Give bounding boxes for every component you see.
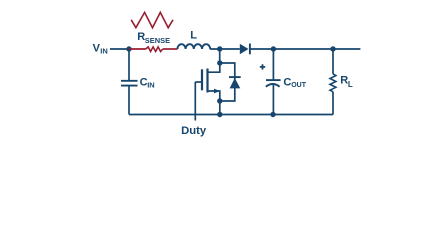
capacitor COUT top plate [266,79,281,81]
wire diode to output rail end [250,48,361,50]
svg-text:IN: IN [100,46,108,55]
resistor RSENSE big zigzag symbol above label [131,12,173,27]
svg-text:SENSE: SENSE [145,36,170,45]
transistor Q1 source arrowhead [214,89,220,94]
node C junction dot (COUT tap top) [271,46,276,51]
capacitor CIN top lead [128,49,130,81]
svg-text:L: L [348,80,353,89]
label CIN [140,76,155,89]
transistor Q1 channel bar [206,69,208,93]
wire switch node down to drain node [219,49,221,63]
node E junction dot (source branch on bottom rail) [217,112,222,117]
svg-text:C: C [283,76,291,88]
wire red lead into RSENSE [129,48,146,50]
diode D1 cathode bar [249,44,251,55]
resistor RL zigzag [330,74,336,92]
transistor Q1 source node dot [217,98,222,103]
label RL [340,74,353,89]
node A junction dot (VIN / CIN tap) [126,46,131,51]
wire source node to bottom rail [219,101,221,115]
body diode triangle [230,78,241,88]
body diode branch wire [220,63,235,101]
wire red lead out of RSENSE [163,48,178,50]
capacitor COUT plus sign [260,64,265,69]
transistor Q1 source wire [208,91,220,101]
transistor Q1 gate bar [201,69,203,90]
capacitor CIN bottom plate [121,85,138,87]
transistor Q1 drain node dot [217,60,222,65]
label L [190,30,197,42]
svg-text:IN: IN [147,80,155,89]
capacitor COUT bottom lead [272,84,274,114]
label COUT [283,76,306,89]
svg-text:OUT: OUT [291,82,307,89]
capacitor CIN top plate [121,80,138,82]
body diode cathode bar [229,76,241,78]
diode D1 triangle [240,44,249,54]
resistor RL top lead [332,49,334,74]
node F junction dot (COUT bottom on bottom rail) [270,112,275,117]
svg-text:L: L [190,30,197,42]
svg-text:Duty: Duty [181,125,207,137]
node B junction dot (switch node on top rail) [217,46,222,51]
inductor L [177,44,210,49]
capacitor COUT curved bottom plate [266,84,280,87]
label VIN [93,42,108,55]
node D junction dot (RL tap top) [330,46,335,51]
wire top rail from VIN to node A [110,48,129,50]
label RSENSE [137,31,170,45]
resistor RL bottom lead [332,92,334,115]
capacitor COUT top lead [272,49,274,80]
wire bottom rail [129,114,333,116]
resistor RSENSE inline zigzag [146,47,163,52]
transistor Q1 drain jog wire [208,63,220,72]
wire inductor to diode [210,48,240,50]
capacitor CIN bottom lead [128,86,130,115]
transistor Q1 gate lead [195,81,202,83]
label Duty [181,125,207,137]
wire gate lead down to Duty [194,82,196,121]
